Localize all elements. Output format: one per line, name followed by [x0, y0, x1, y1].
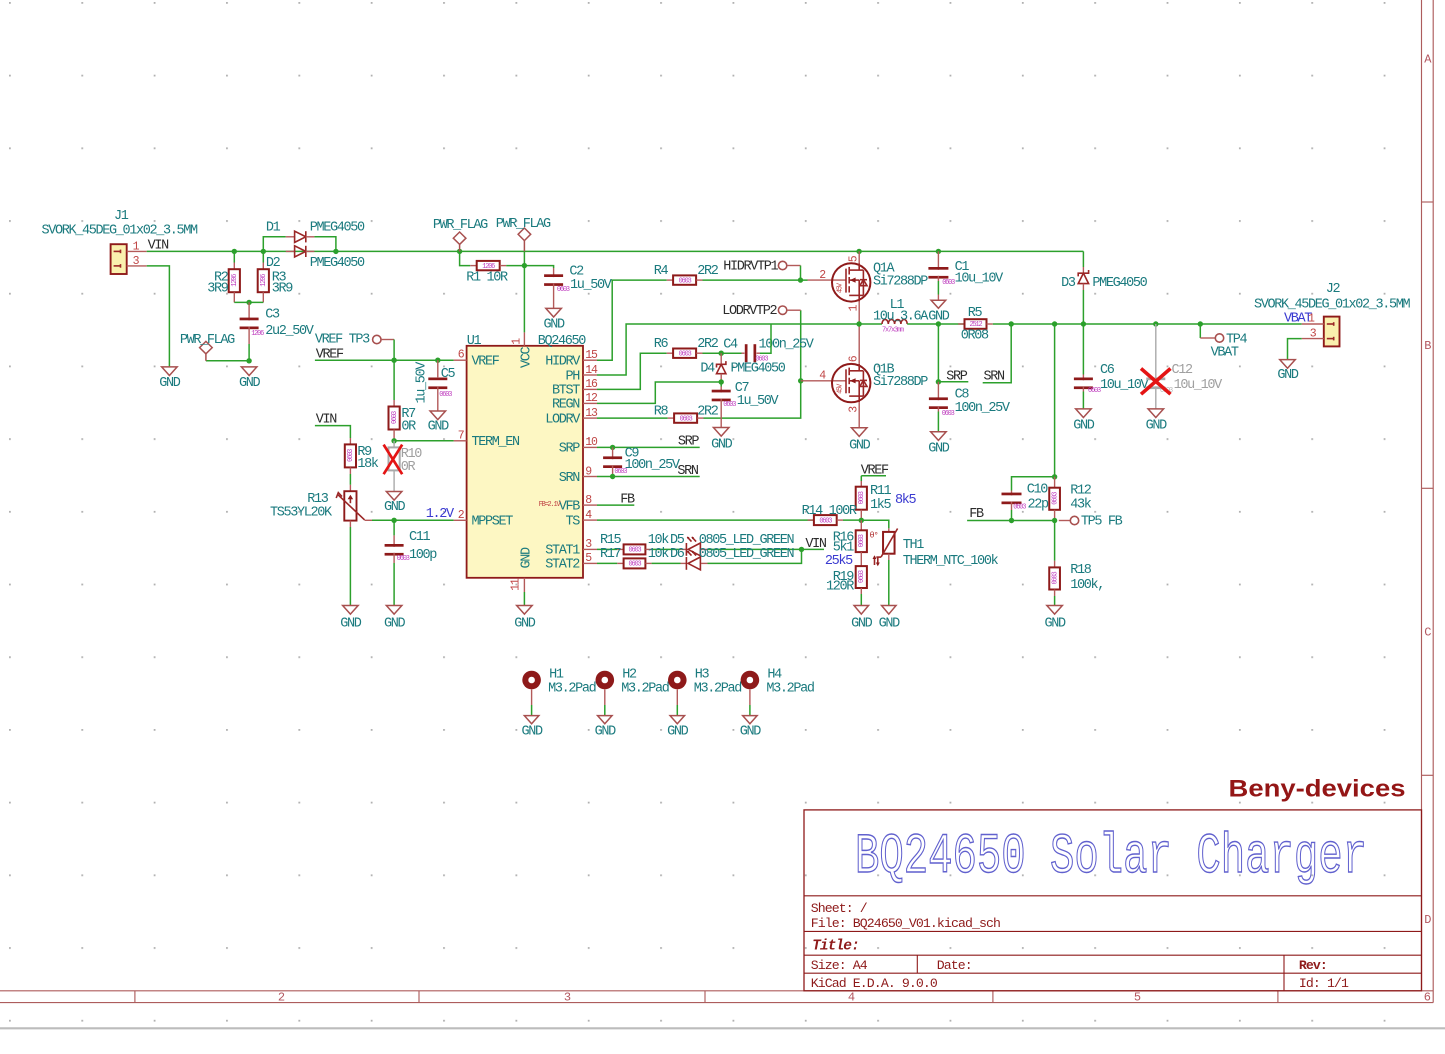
svg-text:GND: GND: [514, 617, 536, 632]
junction: [391, 358, 396, 363]
svg-text:0R: 0R: [401, 419, 416, 434]
svg-text:D3: D3: [1061, 276, 1076, 291]
svg-text:SRP: SRP: [559, 442, 581, 457]
U1 pin 14 PH: [583, 374, 597, 376]
svg-text:GND: GND: [879, 617, 901, 632]
svg-text:0603: 0603: [858, 570, 866, 583]
capacitor C9 100n_25V: [612, 447, 614, 459]
resistor R14 100R: [808, 519, 814, 521]
U1 pin 10 SRP: [583, 446, 597, 448]
svg-text:R8: R8: [654, 405, 669, 420]
junction: [391, 438, 396, 443]
wire: [703, 279, 808, 281]
mounting hole H2: [596, 671, 615, 690]
wire: [248, 344, 250, 361]
ground: [931, 300, 946, 308]
wire: [394, 519, 454, 521]
svg-text:GND: GND: [667, 725, 689, 740]
wire: [597, 446, 700, 448]
sheet frame bottom border: [0, 990, 1433, 992]
U1 pin 8 VFB: [583, 504, 597, 506]
svg-text:7x7x3mm: 7x7x3mm: [882, 327, 904, 335]
svg-text:0603: 0603: [723, 401, 736, 409]
svg-text:GND: GND: [159, 376, 181, 391]
svg-text:0603: 0603: [614, 468, 627, 476]
thermistor TH1 THERM_NTC_100k: [888, 528, 890, 532]
svg-text:GND: GND: [1073, 419, 1095, 434]
H1 pin to GND: [531, 689, 533, 705]
svg-text:0603: 0603: [557, 286, 570, 294]
U1 pin 3 STAT1: [583, 548, 597, 550]
junction: [435, 358, 440, 363]
svg-text:GND: GND: [1277, 368, 1299, 383]
svg-text:0603: 0603: [679, 350, 692, 358]
svg-text:Si7288DP: Si7288DP: [873, 375, 928, 390]
svg-text:REGN: REGN: [552, 398, 580, 413]
Q1A source pin 1: [858, 302, 860, 324]
U1 pin 6 VREF: [454, 359, 467, 361]
svg-text:0603: 0603: [629, 561, 642, 569]
wire: [524, 266, 553, 268]
junction: [798, 378, 803, 383]
svg-text:GND: GND: [595, 725, 617, 740]
svg-text:0603: 0603: [1088, 387, 1101, 395]
wire: [652, 548, 681, 550]
power flag PWR_FLAG at VCC: [523, 241, 525, 252]
transistor Q1A Si7288DP: [832, 263, 870, 301]
ground: [1148, 409, 1164, 418]
svg-text:22p: 22p: [1028, 497, 1050, 512]
svg-text:SVORK_45DEG_01x02_3.5MM: SVORK_45DEG_01x02_3.5MM: [1254, 298, 1411, 313]
svg-text:1k5: 1k5: [870, 498, 892, 513]
svg-text:100n_25V: 100n_25V: [759, 337, 815, 352]
svg-text:12: 12: [585, 392, 598, 405]
svg-text:J1: J1: [114, 209, 129, 224]
junction: [859, 518, 864, 523]
junction: [936, 379, 941, 384]
svg-text:Size: A4: Size: A4: [811, 958, 868, 973]
svg-text:GND: GND: [851, 617, 873, 632]
LED D5 0805_LED_GREEN: [681, 548, 687, 550]
svg-text:10k: 10k: [648, 547, 670, 562]
svg-text:STAT1: STAT1: [545, 544, 580, 559]
wire: [708, 548, 825, 550]
svg-text:10: 10: [585, 436, 598, 449]
Q1B drain pin 6: [858, 324, 860, 364]
wire: [460, 251, 471, 265]
resistor R16 5k1: [860, 520, 862, 530]
wire: [262, 251, 264, 262]
svg-text:4: 4: [848, 990, 855, 1004]
svg-text:16: 16: [585, 378, 598, 391]
ground: [1047, 606, 1063, 615]
wire: [147, 266, 170, 367]
svg-text:FB=2.1V: FB=2.1V: [539, 501, 562, 509]
svg-text:KiCad E.D.A. 9.0.0: KiCad E.D.A. 9.0.0: [811, 976, 938, 991]
svg-text:TS: TS: [565, 514, 580, 529]
svg-text:2u2_50V: 2u2_50V: [265, 324, 315, 339]
svg-text:TH1: TH1: [903, 538, 925, 553]
U1 pin 1 VCC: [523, 332, 525, 345]
wire: [860, 594, 862, 606]
wire: [597, 417, 668, 419]
svg-text:2R2: 2R2: [697, 264, 719, 279]
wire: [523, 251, 525, 332]
DNP cross over R10: [384, 445, 403, 475]
capacitor C4 100n_25V: [742, 352, 745, 354]
sheet title text BQ24650 Solar Charger: [855, 825, 1367, 889]
ground: [546, 308, 562, 317]
wire: [263, 237, 286, 252]
wire: [597, 562, 617, 564]
wire: [1082, 392, 1084, 409]
junction: [1198, 321, 1203, 326]
svg-text:M3.2Pad: M3.2Pad: [694, 682, 742, 697]
svg-text:GND: GND: [928, 310, 950, 325]
svg-text:M3.2Pad: M3.2Pad: [621, 682, 669, 697]
junction: [1081, 321, 1086, 326]
svg-text:PMEG4050: PMEG4050: [310, 256, 365, 271]
svg-text:VIN: VIN: [805, 537, 827, 552]
svg-text:SRN: SRN: [559, 471, 581, 486]
capacitor C12 10u_10V (DNP): [1155, 324, 1157, 380]
svg-text:3R9: 3R9: [207, 282, 229, 297]
svg-text:C11: C11: [409, 530, 431, 545]
svg-text:GND: GND: [1146, 419, 1168, 434]
U1 pin 7 TERM_EN: [454, 440, 467, 442]
svg-text:M3.2Pad: M3.2Pad: [766, 682, 814, 697]
svg-text:D6: D6: [670, 547, 685, 562]
LED D6 0805_LED_GREEN: [681, 562, 687, 564]
svg-text:SRP: SRP: [678, 435, 700, 450]
ground: [386, 606, 402, 615]
svg-text:1.2V: 1.2V: [426, 507, 455, 522]
junction: [333, 249, 338, 254]
svg-text:Date:: Date:: [937, 958, 972, 973]
U1 pin 11 GND: [523, 578, 525, 592]
Q1B gate pin: [801, 380, 846, 382]
svg-text:R17: R17: [600, 547, 622, 562]
svg-text:10u_10V: 10u_10V: [1174, 378, 1224, 393]
junction: [719, 379, 724, 384]
svg-text:C10: C10: [1027, 482, 1049, 497]
trimmer resistor R13 TS53YL20K: [349, 485, 351, 491]
ground: [598, 716, 613, 724]
svg-text:R15: R15: [600, 533, 622, 548]
ground: [743, 716, 758, 724]
ground: [517, 606, 533, 615]
resistor R10 0R (DNP): [393, 441, 395, 448]
wire: [393, 360, 395, 400]
H3 pin to GND: [676, 689, 678, 705]
frame column ticks: [134, 991, 136, 1003]
U1 pin 9 SRN: [583, 476, 597, 478]
svg-text:0603: 0603: [391, 411, 399, 424]
resistor R15 10k: [617, 548, 623, 550]
wire: [393, 340, 395, 361]
svg-text:Beny-devices: Beny-devices: [1229, 776, 1406, 803]
svg-text:10k: 10k: [648, 533, 670, 548]
svg-text:C6: C6: [1100, 363, 1115, 378]
svg-text:Rev:: Rev:: [1299, 958, 1327, 973]
svg-text:PMEG4050: PMEG4050: [310, 221, 365, 236]
wire: [597, 324, 882, 375]
wire: [937, 324, 939, 382]
wire: [888, 560, 890, 606]
title block row dividers: [804, 895, 1422, 897]
canvas edge line: [0, 1027, 1445, 1029]
svg-text:0603: 0603: [858, 491, 866, 504]
svg-text:J2: J2: [1326, 282, 1341, 297]
junction: [1052, 518, 1057, 523]
wire: [843, 519, 861, 521]
svg-text:18k: 18k: [357, 457, 379, 472]
svg-text:FB: FB: [620, 492, 635, 507]
DNP cross over C12: [1141, 369, 1171, 395]
wire: [1082, 251, 1084, 267]
wire: [676, 705, 678, 716]
svg-text:0603: 0603: [679, 277, 692, 285]
svg-text:C3: C3: [265, 308, 280, 323]
wire: [393, 563, 395, 606]
svg-text:VFB: VFB: [559, 499, 581, 514]
svg-text:11: 11: [510, 578, 523, 591]
wire: [1082, 324, 1084, 375]
svg-text:3: 3: [564, 990, 571, 1004]
ground: [931, 432, 947, 441]
wire: [349, 474, 351, 485]
resistor R5 0R08: [958, 323, 964, 325]
svg-text:1u_50V: 1u_50V: [570, 278, 613, 293]
svg-text:120R: 120R: [826, 579, 854, 594]
svg-text:GND: GND: [928, 441, 950, 456]
svg-text:H2: H2: [622, 667, 637, 682]
svg-text:R11: R11: [870, 484, 892, 499]
power flag PWR_FLAG: [205, 354, 207, 361]
svg-text:0805_LED_GREEN: 0805_LED_GREEN: [699, 533, 795, 548]
Q1B source pin 3: [858, 402, 860, 427]
svg-text:6: 6: [1424, 990, 1431, 1004]
wire: [394, 440, 454, 442]
J1 pin 1: [127, 250, 147, 252]
svg-text:100k,: 100k,: [1070, 578, 1104, 593]
svg-text:1u_50V: 1u_50V: [737, 394, 780, 409]
svg-text:U1: U1: [467, 334, 482, 349]
wire: [1011, 510, 1013, 521]
svg-text:TP5 FB: TP5 FB: [1081, 514, 1123, 529]
svg-text:GND: GND: [740, 725, 762, 740]
wire: [206, 360, 249, 362]
svg-text:FB: FB: [969, 507, 984, 522]
svg-text:B: B: [1424, 339, 1431, 353]
junction: [232, 249, 237, 254]
wire: [652, 562, 681, 564]
ground: [882, 606, 897, 615]
junction: [246, 300, 251, 305]
svg-text:PMEG4050: PMEG4050: [731, 361, 786, 376]
svg-text:BQ24650 Solar Charger: BQ24650 Solar Charger: [855, 825, 1367, 889]
svg-text:Title:: Title:: [812, 939, 859, 955]
power flag PWR_FLAG: [459, 244, 461, 251]
svg-text:C5: C5: [441, 367, 456, 382]
ground: [854, 606, 869, 615]
ground: [386, 492, 402, 501]
junction: [856, 321, 861, 326]
junction: [261, 249, 266, 254]
sheet frame right border: [1421, 0, 1423, 991]
wire: [1012, 477, 1055, 491]
svg-text:D1: D1: [266, 221, 281, 236]
svg-text:GND: GND: [1044, 617, 1066, 632]
wire: [314, 237, 336, 252]
U1 pin 2 MPPSET: [454, 519, 467, 521]
svg-text:H1: H1: [549, 667, 564, 682]
svg-text:GND: GND: [239, 376, 261, 391]
junction: [522, 263, 527, 268]
ground: [1280, 360, 1296, 369]
U1 pin 4 TS: [583, 519, 597, 521]
transistor Q1B Si7288DP: [832, 364, 870, 402]
ground: [1076, 409, 1092, 418]
svg-text:MPPSET: MPPSET: [472, 515, 514, 530]
junction: [610, 474, 615, 479]
TH1 current arrows: [874, 557, 876, 566]
U1 pin 15 HIDRV: [583, 359, 597, 361]
junction: [1153, 321, 1158, 326]
svg-text:VREF TP3: VREF TP3: [315, 333, 370, 348]
svg-text:10u_10V: 10u_10V: [1100, 378, 1150, 393]
ground: [162, 367, 178, 376]
svg-text:R6: R6: [654, 337, 669, 352]
junction: [856, 249, 861, 254]
svg-text:2: 2: [278, 990, 285, 1004]
svg-text:PWR_FLAG: PWR_FLAG: [496, 217, 551, 232]
J2 pin 1: [1302, 323, 1324, 325]
svg-text:GND: GND: [543, 318, 565, 333]
svg-text:1206: 1206: [482, 263, 495, 271]
wire: [393, 520, 395, 535]
svg-text:SRP: SRP: [946, 370, 968, 385]
wire: [993, 323, 1302, 325]
svg-text:1u_50V: 1u_50V: [415, 361, 430, 404]
wire: [967, 520, 1055, 522]
svg-text:0603: 0603: [1051, 492, 1059, 505]
svg-text:TERM_EN: TERM_EN: [472, 435, 521, 450]
svg-text:10u_10V: 10u_10V: [955, 272, 1005, 287]
ground: [430, 411, 446, 420]
wire: [523, 592, 525, 606]
svg-text:θ°: θ°: [870, 531, 878, 541]
wire: [147, 250, 1084, 252]
resistor R8 2R2: [668, 417, 674, 419]
svg-text:0603: 0603: [397, 555, 410, 563]
svg-text:Si7288DP: Si7288DP: [873, 275, 928, 290]
svg-text:H3: H3: [695, 667, 710, 682]
testpoint TP5: [1059, 520, 1070, 522]
svg-text:8k5: 8k5: [895, 493, 917, 508]
svg-text:THERM_NTC_100k: THERM_NTC_100k: [903, 554, 999, 569]
svg-text:PH: PH: [565, 369, 580, 384]
ground: [713, 428, 729, 437]
mounting hole H3: [668, 671, 687, 690]
resistor R6 2R2: [667, 352, 673, 354]
frame row divider B/C: [1422, 487, 1434, 489]
wire: [315, 426, 351, 438]
wire: [315, 359, 454, 361]
svg-text:PMEG4050: PMEG4050: [1092, 276, 1147, 291]
svg-text:0R: 0R: [401, 460, 416, 475]
svg-text:0805_LED_GREEN: 0805_LED_GREEN: [699, 547, 795, 562]
svg-text:7: 7: [458, 429, 464, 442]
svg-text:BTST: BTST: [552, 384, 580, 399]
wire: [597, 548, 617, 550]
svg-text:GND: GND: [521, 725, 543, 740]
svg-text:43k: 43k: [1070, 497, 1092, 512]
junction: [799, 547, 804, 552]
J2 pin 3: [1302, 338, 1324, 340]
capacitor C10 22p: [1011, 491, 1013, 496]
svg-text:3R9: 3R9: [272, 282, 294, 297]
title block border: [804, 810, 1422, 991]
diode D4 PMEG4050: [720, 353, 722, 363]
H4 pin to GND: [749, 689, 751, 705]
wire: [597, 476, 700, 478]
J1 pin 3: [127, 265, 147, 267]
wire: [937, 412, 939, 432]
svg-text:0603: 0603: [858, 534, 866, 547]
svg-text:1206: 1206: [251, 330, 264, 338]
ground: [670, 716, 685, 724]
diode D1 PMEG4050: [286, 236, 295, 238]
svg-text:BQ24650: BQ24650: [538, 334, 587, 349]
mounting hole H4: [741, 671, 760, 690]
resistor R4 2R2: [667, 279, 673, 281]
wire: [349, 527, 351, 606]
svg-text:SRN: SRN: [677, 464, 699, 479]
svg-text:LODRVTP2: LODRVTP2: [722, 304, 777, 319]
svg-text:TS53YL20K: TS53YL20K: [270, 506, 333, 521]
svg-text:0603: 0603: [680, 415, 693, 423]
wire: [506, 265, 524, 267]
wire: [760, 324, 771, 353]
wire: [1288, 339, 1302, 360]
svg-text:C4: C4: [723, 337, 738, 352]
wire: [720, 382, 722, 387]
svg-text:HIDRVTP1: HIDRVTP1: [723, 259, 778, 274]
capacitor C5 1u_50V: [437, 360, 439, 377]
svg-text:VCC: VCC: [520, 346, 535, 368]
svg-text:R12: R12: [1070, 483, 1092, 498]
wire: [704, 310, 801, 418]
svg-text:R4: R4: [654, 264, 669, 279]
U1 pin 5 STAT2: [583, 562, 597, 564]
junction: [1052, 474, 1057, 479]
svg-text:HIDRV: HIDRV: [545, 355, 581, 370]
svg-text:0603: 0603: [629, 547, 642, 555]
svg-text:15: 15: [585, 349, 598, 362]
junction: [391, 518, 396, 523]
H2 pin to GND: [604, 689, 606, 705]
svg-text:VBAT: VBAT: [1211, 345, 1239, 360]
svg-text:PWR_FLAG: PWR_FLAG: [433, 218, 488, 233]
resistor R17 10k: [617, 562, 623, 564]
svg-text:R18: R18: [1070, 563, 1092, 578]
inductor L1 10u_3.6A: [882, 320, 907, 325]
svg-text:0603: 0603: [942, 410, 955, 418]
junction: [1009, 321, 1014, 326]
svg-text:SRN: SRN: [984, 370, 1006, 385]
wire: [938, 381, 968, 383]
